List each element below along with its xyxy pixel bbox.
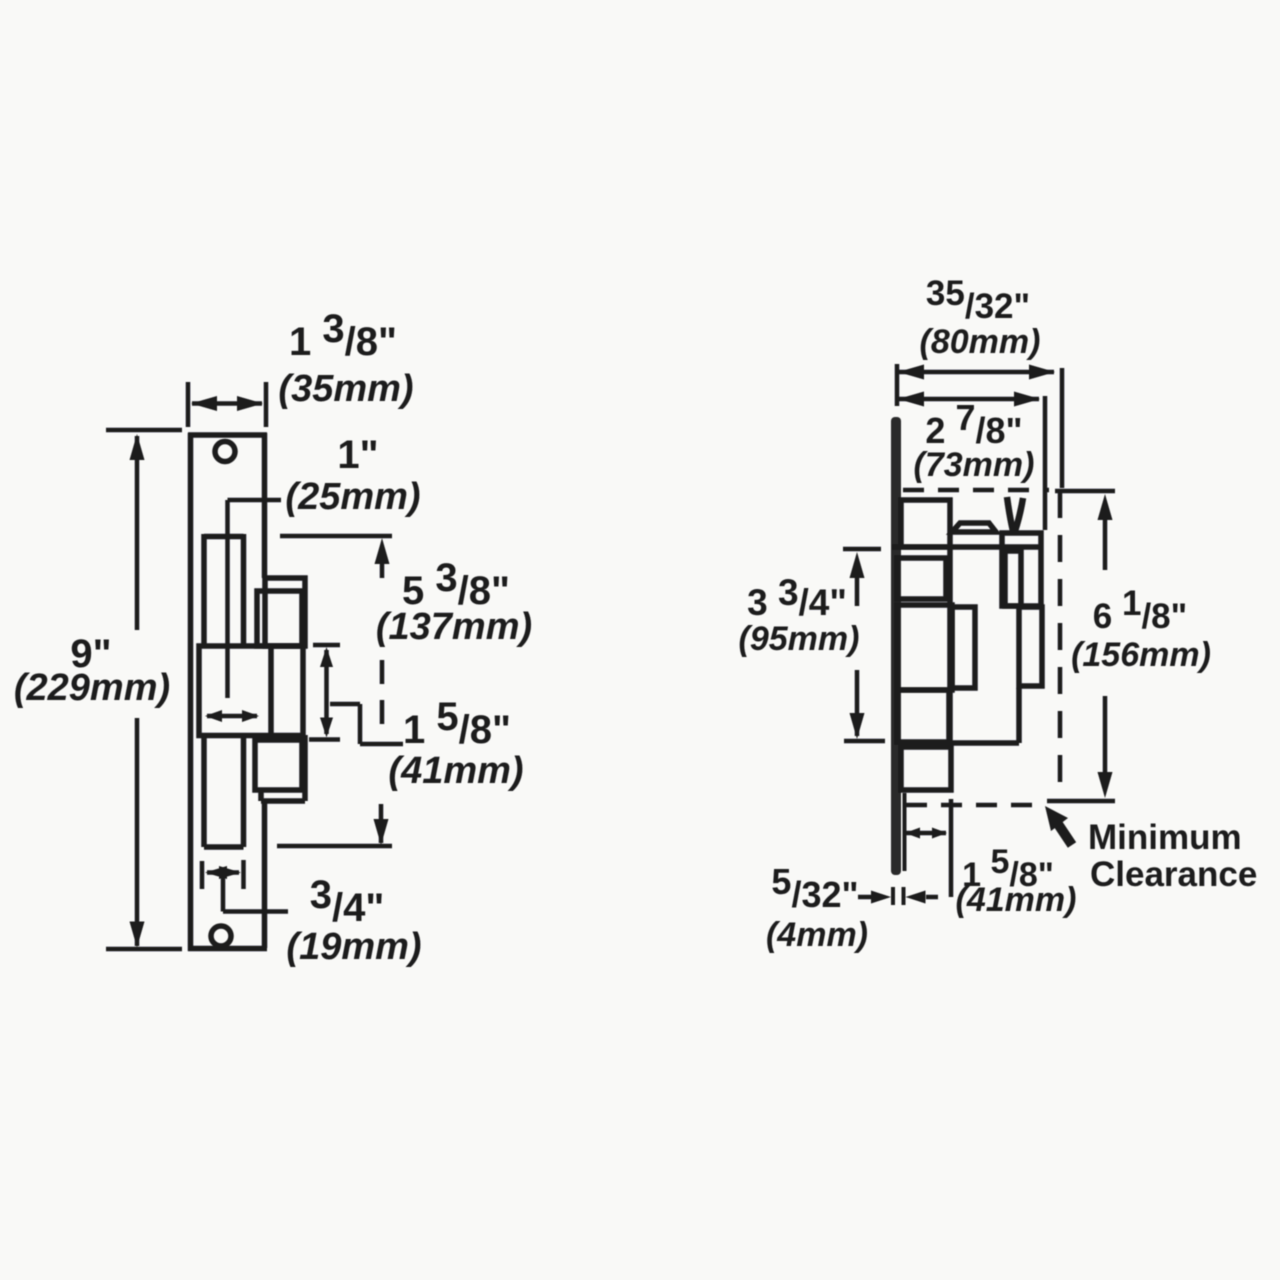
svg-text:(95mm): (95mm)	[739, 620, 860, 658]
svg-text:1": 1"	[337, 433, 378, 477]
minimum clearance pointer arrow	[1045, 806, 1068, 831]
svg-text:(137mm): (137mm)	[376, 606, 532, 648]
dimension 1 3/8 width: extension lines	[186, 382, 191, 427]
lip step rect inner	[257, 591, 302, 646]
left block 4	[897, 690, 949, 742]
svg-text:(41mm): (41mm)	[388, 750, 523, 792]
dashed vertical minimum clearance line	[1058, 491, 1063, 801]
dimension 6 1/8: top tick	[1055, 489, 1115, 494]
bottom block	[901, 747, 951, 790]
screw hole top	[215, 442, 235, 462]
wires	[1007, 497, 1013, 531]
faceplate (front view)	[188, 433, 194, 951]
svg-text:Minimum: Minimum	[1088, 818, 1242, 857]
plate face line below body	[903, 793, 907, 871]
dimension 1 5/8 depth: extension line	[949, 799, 954, 897]
dimension 1 5/8 keeper height: ticks	[313, 643, 340, 648]
top block	[901, 500, 950, 547]
bump trapezoid	[952, 523, 996, 532]
dimension 5/32: ticks	[891, 887, 895, 905]
latch body lower rect	[201, 735, 207, 847]
right tall block upper	[1002, 533, 1041, 606]
dimension 6 1/8: arrows	[1098, 494, 1113, 520]
latch body upper rect	[201, 534, 207, 646]
right tall block lower	[1019, 607, 1042, 686]
svg-text:(73mm): (73mm)	[914, 446, 1035, 484]
dashed line top (faceplate plane)	[903, 488, 1049, 493]
dimension 1 5/8: arrows	[324, 650, 329, 734]
dimension 2 7/8: arrow line	[899, 397, 1039, 402]
leader for 1 inch cavity width	[228, 498, 282, 503]
svg-text:(156mm): (156mm)	[1071, 636, 1211, 674]
block 3 attached rect	[952, 607, 975, 688]
svg-text:(19mm): (19mm)	[286, 926, 421, 968]
dimension 3/4: double arrow	[207, 870, 239, 875]
lower lip rect	[255, 740, 302, 790]
dimension 9 inch: extension lines	[106, 428, 182, 433]
left block 2	[897, 558, 946, 599]
svg-text:(229mm): (229mm)	[14, 667, 170, 709]
svg-text:Clearance: Clearance	[1090, 855, 1257, 894]
svg-text:(4mm): (4mm)	[766, 916, 868, 954]
right tall block inner band	[1005, 551, 1021, 606]
dashed line bottom (minimum clearance plane)	[906, 803, 1046, 808]
svg-text:(41mm): (41mm)	[956, 881, 1077, 919]
cavity width arrow	[207, 714, 257, 719]
dimension 9 inch: arrow line	[135, 436, 140, 630]
dimension 2 7/8: right extension	[1043, 396, 1048, 530]
dimension 35/32: right extension	[1060, 368, 1065, 488]
lower lip outer step	[258, 790, 264, 801]
dimension 5 3/8: up arrow and dashed line	[375, 538, 390, 564]
leader for 3/4	[221, 873, 226, 912]
dimension 35/32: left tick	[895, 364, 900, 406]
dimension 1 3/8 width: arrow line	[192, 401, 262, 406]
svg-text:(35mm): (35mm)	[278, 368, 413, 410]
dimension 5/32: left arrow	[858, 895, 872, 900]
lip step rect outer	[265, 578, 305, 646]
svg-text:(80mm): (80mm)	[920, 323, 1041, 361]
svg-text:(25mm): (25mm)	[285, 476, 420, 518]
screw hole bottom	[211, 926, 231, 946]
strike body main outline	[947, 547, 953, 743]
keeper divider line	[268, 648, 274, 733]
dimension 5/32: right arrow	[906, 891, 926, 904]
left block 3	[897, 605, 952, 690]
dimension 35/32: arrow line	[899, 370, 1054, 375]
keeper block	[199, 646, 303, 736]
dimension 5 3/8: bottom reference line	[277, 844, 392, 849]
dimension 3/4: ticks	[200, 861, 205, 889]
side view faceplate bar	[891, 417, 901, 875]
body top edge	[892, 544, 1040, 550]
dimension 1 5/8 depth: double arrow	[906, 831, 946, 836]
leader step for 1 5/8	[330, 702, 360, 707]
dimension 6 1/8: bottom tick	[1047, 799, 1115, 804]
dimension 5 3/8: top reference line	[280, 534, 392, 539]
dimension 3 3/4: arrows	[850, 552, 865, 578]
dimension 3 3/4: ticks	[843, 547, 881, 552]
